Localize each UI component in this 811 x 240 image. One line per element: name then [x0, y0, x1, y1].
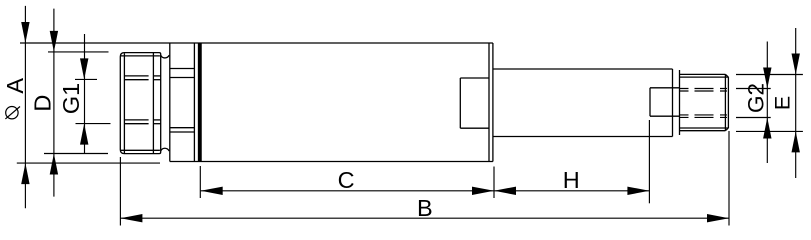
svg-text:H: H	[563, 167, 580, 193]
svg-text:B: B	[417, 195, 433, 221]
svg-text:E: E	[771, 96, 795, 110]
svg-text:G2: G2	[744, 83, 769, 113]
svg-text:C: C	[338, 167, 355, 193]
svg-text:A: A	[2, 78, 28, 94]
svg-text:D: D	[30, 95, 56, 112]
svg-text:G1: G1	[58, 83, 84, 114]
